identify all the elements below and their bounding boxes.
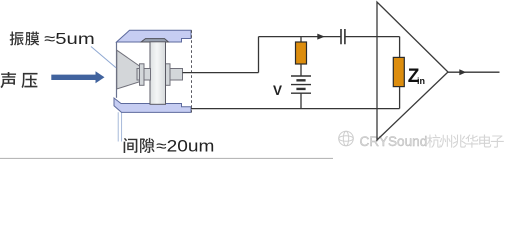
capacitor C <box>341 29 345 44</box>
mic leader lines (gap) lower part drawn under bottom bar <box>118 112 121 141</box>
mic rod left segment <box>137 69 151 81</box>
battery V plates <box>291 76 311 93</box>
wire resistor to battery <box>300 64 302 76</box>
watermark logo globe <box>339 131 354 146</box>
mic housing cut dashed line <box>191 30 193 112</box>
wire riser <box>258 37 260 73</box>
resistor R (orange) <box>296 42 307 64</box>
mic rod left shoulder <box>140 64 145 86</box>
wire top rail left <box>259 36 342 38</box>
svg-text:≈5um: ≈5um <box>44 31 94 48</box>
wire top rail right <box>345 36 400 38</box>
svg-text:CRYSound: CRYSound <box>360 134 428 149</box>
label 间隙≈20um <box>124 137 215 155</box>
wire Zin drop bottom <box>399 87 401 109</box>
mic top clamp trapezoid <box>141 39 169 42</box>
svg-text:≈20um: ≈20um <box>156 137 214 155</box>
mic housing left wall <box>116 42 118 98</box>
mic housing top bar <box>117 30 192 42</box>
Zin box (orange) <box>393 57 404 86</box>
svg-text:V: V <box>273 83 282 98</box>
mic housing bottom bar <box>114 98 191 112</box>
mic diaphragm cone <box>117 50 140 89</box>
wire resistor stub top <box>300 37 302 42</box>
label 振膜≈5um <box>10 31 95 48</box>
arrow on top rail <box>317 34 325 40</box>
leader line diaphragm <box>91 47 116 68</box>
mic rod right segment <box>170 69 183 81</box>
output wire <box>448 71 500 73</box>
watermark text 杭州兆华电子 <box>427 134 504 147</box>
wire bottom rail <box>191 108 400 110</box>
divider line <box>0 157 333 159</box>
wire mic output to node <box>183 72 259 74</box>
output arrow <box>459 69 466 75</box>
wire Zin drop top <box>399 37 401 58</box>
sound pressure arrow <box>51 71 104 83</box>
wire battery to bottom rail <box>300 93 302 108</box>
label 声压 <box>0 72 37 88</box>
mic rod flange <box>158 64 170 86</box>
op-amp triangle U1 <box>377 2 448 140</box>
svg-text:in: in <box>417 76 425 86</box>
